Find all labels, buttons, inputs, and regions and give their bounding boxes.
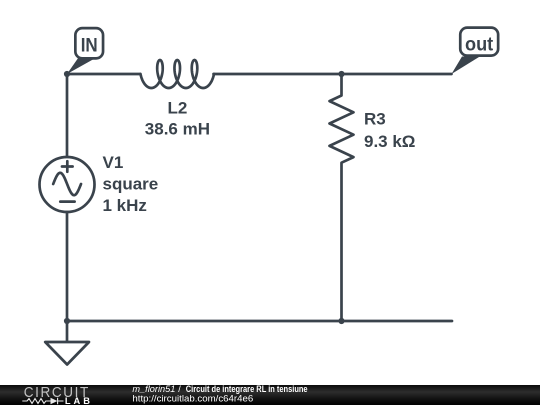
V1 plus terminal mark [62, 161, 73, 172]
svg-text:out: out [465, 35, 494, 56]
wire top right (L2 to out) [214, 73, 452, 76]
svg-text:LAB: LAB [65, 396, 93, 405]
node flag out [452, 28, 499, 74]
svg-text:Circuit de integrare RL in ten: Circuit de integrare RL in tensiune [186, 384, 308, 394]
ground stem wire [66, 321, 69, 342]
junction node top (R3 top) [338, 71, 344, 77]
svg-text:9.3 kΩ: 9.3 kΩ [364, 132, 415, 151]
svg-text:m_florin51: m_florin51 [132, 384, 175, 394]
ground triangle [45, 342, 89, 365]
V1 body circle [40, 157, 95, 212]
svg-text:V1: V1 [103, 153, 124, 172]
resistor R3 [330, 74, 354, 321]
svg-text:38.6 mH: 38.6 mH [145, 120, 210, 139]
node flag IN [67, 28, 103, 74]
voltage source V1 [40, 157, 95, 212]
svg-text:IN: IN [81, 36, 98, 57]
junction node at IN [64, 71, 70, 77]
wire top left (IN node to L2) [67, 73, 140, 76]
junction node bottom (R3 bottom) [338, 318, 344, 324]
inductor L2 [141, 60, 214, 88]
V1 minus terminal mark [60, 200, 74, 203]
svg-text:1 kHz: 1 kHz [103, 196, 147, 215]
svg-text:http://circuitlab.com/c64r4e6: http://circuitlab.com/c64r4e6 [132, 394, 253, 404]
footer bar [0, 385, 540, 405]
wire bottom rail [67, 320, 452, 323]
svg-text:R3: R3 [364, 110, 386, 129]
CircuitLab logo resistor squiggle and diode [22, 398, 63, 404]
svg-text:square: square [103, 175, 159, 194]
V1 sine waveform mark [53, 173, 81, 195]
junction node bottom left [64, 318, 70, 324]
ground [45, 321, 89, 365]
svg-text:L2: L2 [167, 99, 187, 118]
wire left vertical lower (V1 to ground rail) [66, 212, 69, 321]
wire left vertical upper (IN node to V1) [66, 74, 69, 157]
